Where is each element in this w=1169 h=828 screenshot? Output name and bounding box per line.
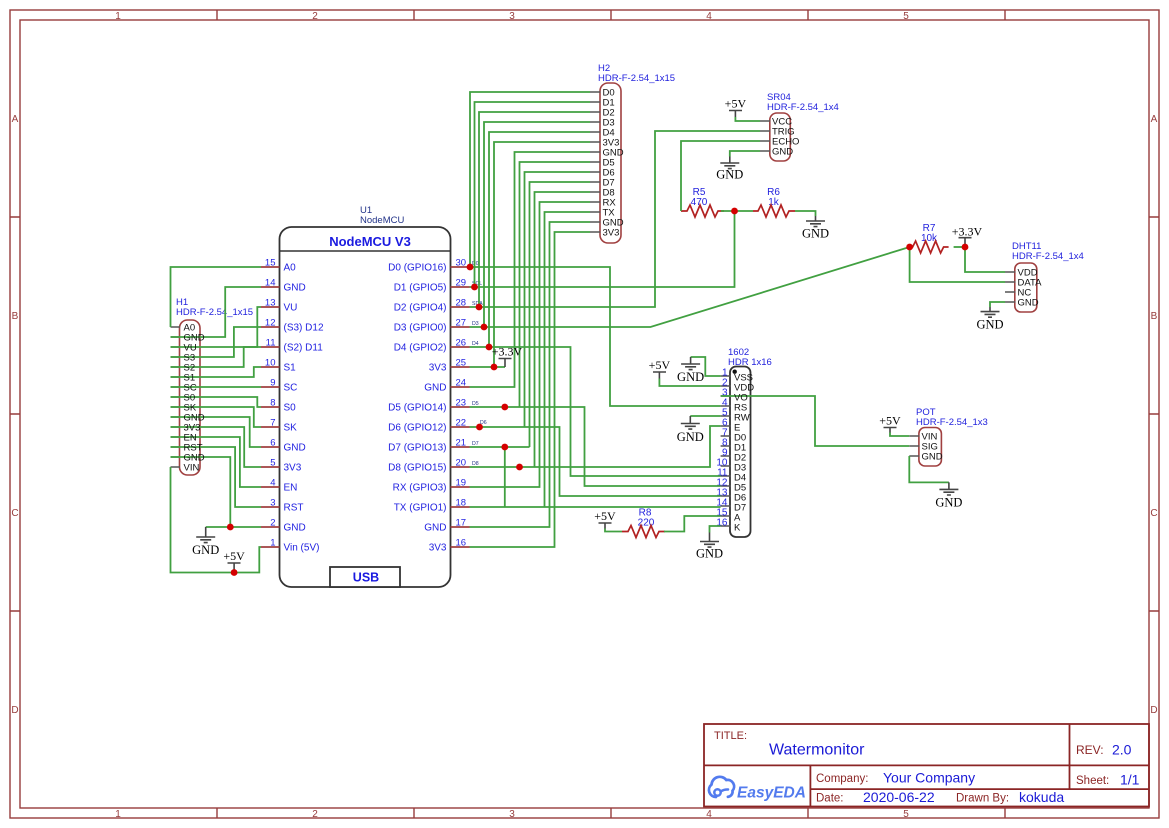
junction at U1 pin27 D3 — [481, 324, 488, 331]
wire net 3V3 from H2 pin6 — [494, 142, 590, 367]
ground at R6 — [802, 216, 829, 241]
wire net D3 from H2 pin4 — [484, 122, 590, 327]
wire R6 to ground — [795, 211, 816, 216]
junction R7 right +3.3V — [962, 244, 969, 251]
svg-text:REV:: REV: — [1076, 743, 1104, 757]
svg-text:GND: GND — [677, 370, 704, 384]
svg-text:kokuda: kokuda — [1019, 789, 1064, 805]
wire net D7 from H2 pin10 — [530, 182, 591, 447]
connector SR04 — [760, 92, 839, 161]
wire +5V flag to R8 — [605, 529, 622, 532]
svg-text:4: 4 — [706, 809, 712, 820]
svg-text:29: 29 — [456, 278, 467, 289]
svg-text:GND: GND — [1018, 298, 1039, 309]
resistor R8 — [622, 508, 665, 538]
wire SR04 GND pin to ground — [730, 151, 760, 157]
svg-text:SC: SC — [284, 383, 298, 394]
svg-text:Company:: Company: — [816, 773, 868, 785]
wire U1 pin29 D1 to R5 R6 junction — [470, 211, 735, 287]
+5V power flag at LCD VDD — [649, 358, 671, 379]
resistor R6 — [753, 187, 795, 217]
svg-text:GND: GND — [284, 283, 306, 294]
svg-text:1/1: 1/1 — [1120, 772, 1140, 788]
svg-text:Vin (5V): Vin (5V) — [284, 543, 320, 554]
wire U1 pin28 D2 to SR04 TRIG — [470, 131, 761, 307]
svg-text:21: 21 — [456, 438, 467, 449]
wire LCD VO to POT SIG — [721, 396, 910, 446]
svg-text:3: 3 — [509, 809, 515, 820]
svg-text:TITLE:: TITLE: — [714, 730, 747, 742]
svg-text:1: 1 — [115, 809, 121, 820]
H1 pin lines — [171, 327, 181, 467]
wire net GND from H2 pin7 to U1 pin24 — [470, 152, 591, 387]
U1 left pin stubs — [261, 267, 280, 547]
svg-text:8: 8 — [270, 398, 275, 409]
svg-text:NodeMCU V3: NodeMCU V3 — [329, 234, 411, 249]
junction on net D5 — [501, 404, 508, 411]
svg-text:D: D — [1150, 705, 1157, 716]
wire POT GND pin to ground — [909, 456, 949, 482]
node net labels D0 SCL SDA D3 D4 D5 D6 D7 D8 — [472, 261, 487, 467]
svg-text:S0: S0 — [284, 403, 297, 414]
svg-text:3V3: 3V3 — [603, 228, 620, 239]
wire H1 SK to U1 pin7 — [171, 407, 262, 427]
svg-text:GND: GND — [424, 523, 446, 534]
svg-text:+5V: +5V — [223, 549, 245, 563]
svg-text:RX (GPIO3): RX (GPIO3) — [393, 483, 447, 494]
svg-text:2: 2 — [312, 809, 318, 820]
svg-text:10: 10 — [265, 358, 276, 369]
svg-text:16: 16 — [456, 538, 467, 549]
LCD1602 pin names — [734, 373, 754, 534]
svg-text:3V3: 3V3 — [429, 363, 447, 374]
svg-text:26: 26 — [456, 338, 467, 349]
wire LCD RW to ground — [690, 415, 720, 417]
svg-text:(S3) D12: (S3) D12 — [284, 323, 324, 334]
svg-text:A: A — [1151, 114, 1158, 125]
svg-text:4: 4 — [706, 11, 712, 22]
wire U1 pin25 3V3 to +3.3V flag — [470, 366, 506, 368]
svg-text:RST: RST — [284, 503, 304, 514]
svg-text:HDR-F-2.54_1x4: HDR-F-2.54_1x4 — [1012, 251, 1084, 262]
wire net D5 from H2 pin8 — [520, 162, 591, 407]
svg-text:6: 6 — [270, 438, 275, 449]
svg-text:GND: GND — [284, 443, 306, 454]
svg-text:+5V: +5V — [879, 414, 901, 428]
ground at LCD VSS — [677, 357, 704, 384]
wire U1 pin27 D3 diagonal to R7 — [470, 247, 910, 327]
svg-text:HDR-F-2.54_1x4: HDR-F-2.54_1x4 — [767, 102, 839, 113]
svg-text:2: 2 — [312, 11, 318, 22]
svg-text:5: 5 — [903, 11, 909, 22]
svg-text:27: 27 — [456, 318, 467, 329]
svg-text:B: B — [1151, 311, 1158, 322]
H1 pin names — [184, 323, 205, 474]
title block — [704, 724, 1149, 807]
junction R7 left DATA — [906, 244, 913, 251]
svg-text:GND: GND — [677, 430, 704, 444]
svg-text:D2 (GPIO4): D2 (GPIO4) — [394, 303, 447, 314]
svg-text:USB: USB — [353, 571, 379, 585]
wire LCD K to ground — [710, 526, 721, 533]
svg-text:5: 5 — [270, 458, 275, 469]
ground at SR04 — [716, 157, 743, 182]
svg-text:GND: GND — [696, 547, 723, 561]
svg-text:3: 3 — [509, 11, 515, 22]
wire U1 pin22 D6 to LCD D6 — [470, 427, 721, 496]
junction at U1 pin28 D2 — [476, 304, 483, 311]
wire branch D7 down to TX row — [504, 447, 506, 507]
svg-text:VU: VU — [284, 303, 298, 314]
wire U1 pin20 D8 to LCD E — [470, 426, 721, 467]
wire net D2 from H2 pin3 — [479, 112, 590, 307]
wire LCD VSS to ground — [691, 357, 721, 376]
svg-text:D6 (GPIO12): D6 (GPIO12) — [388, 423, 446, 434]
svg-text:B: B — [12, 311, 19, 322]
svg-text:2: 2 — [270, 518, 275, 529]
resistor R7 — [910, 223, 949, 253]
svg-text:(S2) D11: (S2) D11 — [284, 343, 324, 354]
svg-text:S1: S1 — [284, 363, 297, 374]
junction on net D7 — [501, 444, 508, 451]
svg-text:D5 (GPIO14): D5 (GPIO14) — [388, 403, 446, 414]
svg-text:3V3: 3V3 — [429, 543, 447, 554]
H2 pin lines — [590, 92, 601, 232]
junction at U1 pin25 3V3 — [491, 364, 498, 371]
svg-text:A0: A0 — [284, 263, 297, 274]
wire GND junction to ground symbol — [206, 526, 231, 528]
wire net D0 from H2 pin1 — [470, 92, 590, 267]
svg-text:11: 11 — [266, 338, 276, 349]
svg-text:+3.3V: +3.3V — [952, 225, 983, 239]
svg-text:VIN: VIN — [184, 463, 200, 474]
wire net D6 from H2 pin9 — [525, 172, 591, 427]
wire +5V flag to POT VIN — [890, 433, 909, 437]
connector H2 — [598, 63, 675, 243]
svg-text:+3.3V: +3.3V — [492, 345, 523, 359]
junction at U1 pin30 D0 — [467, 264, 474, 271]
+3.3V power flag at R7 — [952, 225, 983, 248]
+3.3V power flag at U1 pin25 — [492, 345, 523, 368]
wire H1 RST to U1 pin3 — [171, 447, 262, 507]
ground at H1 — [192, 527, 219, 557]
wire LCD A to R8 — [664, 516, 721, 532]
svg-text:D: D — [11, 705, 18, 716]
svg-text:1: 1 — [115, 11, 121, 22]
svg-text:7: 7 — [270, 418, 275, 429]
wire net TX from H2 pin13 — [545, 212, 591, 507]
U1 right pin numbers — [456, 258, 467, 549]
svg-text:2.0: 2.0 — [1112, 742, 1132, 758]
svg-text:D4 (GPIO2): D4 (GPIO2) — [394, 343, 447, 354]
svg-text:Watermonitor: Watermonitor — [769, 742, 865, 759]
svg-text:3: 3 — [270, 498, 275, 509]
wire net GND from H2 pin14 to U1 pin17 — [470, 222, 591, 527]
svg-text:HDR-F-2.54_1x15: HDR-F-2.54_1x15 — [176, 307, 253, 318]
svg-text:18: 18 — [456, 498, 467, 509]
+5V power flag at H1 VIN — [223, 549, 245, 573]
svg-text:GND: GND — [802, 227, 829, 241]
U1 left pin numbers — [265, 258, 276, 549]
junction at U1 pin26 D4 — [486, 344, 493, 351]
EasyEDA logo — [709, 777, 806, 802]
svg-text:+5V: +5V — [725, 97, 747, 111]
svg-text:5: 5 — [903, 809, 909, 820]
svg-text:+5V: +5V — [594, 509, 616, 523]
wire H1 EN to U1 pin4 — [171, 437, 262, 487]
connector DHT11 — [1005, 241, 1084, 312]
wire net 3V3 from H2 pin15 to U1 pin16 — [470, 232, 591, 547]
svg-text:Date:: Date: — [816, 793, 844, 805]
svg-text:D3 (GPIO0): D3 (GPIO0) — [394, 323, 447, 334]
wire +3.3V junction to DHT11 VDD — [965, 247, 1005, 272]
svg-text:23: 23 — [456, 398, 467, 409]
wire H1 S0 to U1 pin8 — [171, 397, 262, 407]
wire +5V flag to LCD VDD — [659, 379, 720, 387]
wire R5 to R6 through junction — [721, 210, 753, 212]
wire net RX from H2 pin12 to U1 pin19 — [470, 202, 591, 487]
svg-text:D8 (GPIO15): D8 (GPIO15) — [388, 463, 446, 474]
ground at LCD RW — [677, 416, 704, 444]
svg-text:HDR-F-2.54_1x3: HDR-F-2.54_1x3 — [916, 417, 988, 428]
svg-text:4: 4 — [270, 478, 275, 489]
wire H1 GND to U1 pin2 — [171, 457, 262, 527]
wire H1 3V3 to U1 pin5 — [171, 427, 262, 467]
svg-text:3V3: 3V3 — [284, 463, 302, 474]
wire H1 S2 to U1 pin11 — [171, 347, 262, 367]
wire U1 pin30 D0 to LCD RS — [470, 267, 721, 406]
wire H1 VU to U1 pin13 — [171, 307, 262, 347]
wire net D8 from H2 pin11 — [535, 192, 591, 467]
wire R7 to +3.3V junction — [954, 246, 965, 248]
junction R5 R6 divider — [731, 208, 738, 215]
ground at LCD K — [696, 533, 723, 561]
wire H1 S1 to U1 pin10 — [171, 367, 262, 377]
svg-text:GND: GND — [284, 523, 306, 534]
svg-text:28: 28 — [456, 298, 467, 309]
junction H1 GND net — [227, 524, 234, 531]
svg-text:24: 24 — [456, 378, 467, 389]
svg-text:15: 15 — [265, 258, 276, 269]
wire DHT11 GND pin to ground — [990, 302, 1005, 307]
svg-text:D0 (GPIO16): D0 (GPIO16) — [388, 263, 446, 274]
wire H1 GND to U1 pin14 — [171, 287, 262, 337]
svg-text:GND: GND — [716, 168, 743, 182]
svg-text:GND: GND — [192, 543, 219, 557]
svg-text:Your Company: Your Company — [883, 770, 975, 786]
svg-text:GND: GND — [935, 496, 962, 510]
svg-text:SK: SK — [284, 423, 298, 434]
svg-text:D1 (GPIO5): D1 (GPIO5) — [394, 283, 447, 294]
svg-text:EN: EN — [284, 483, 298, 494]
wire H1 A0 to U1 pin15 — [171, 267, 262, 327]
junction at U1 pin29 D1 — [471, 284, 478, 291]
H2 pin names — [603, 88, 624, 239]
U1 right pin stubs — [451, 267, 470, 547]
svg-text:D7 (GPIO13): D7 (GPIO13) — [388, 443, 446, 454]
+5V power flag at R8 — [594, 509, 616, 529]
+5V power flag at SR04 — [725, 97, 747, 118]
wire H1 S3 to U1 pin12 — [171, 327, 262, 357]
wire H1 GND to U1 pin6 — [171, 417, 262, 447]
svg-text:13: 13 — [265, 298, 276, 309]
svg-text:C: C — [1150, 508, 1157, 519]
svg-text:NodeMCU: NodeMCU — [360, 215, 404, 226]
svg-text:9: 9 — [270, 378, 275, 389]
wire R7 junction to DHT11 DATA — [910, 247, 1005, 282]
junction on net D6 — [476, 424, 483, 431]
svg-text:GND: GND — [424, 383, 446, 394]
svg-text:C: C — [11, 508, 18, 519]
svg-text:17: 17 — [456, 518, 467, 529]
resistor R5 — [681, 187, 724, 217]
wire U1 pin23 D5 to LCD D5 — [470, 407, 721, 486]
wire H1 SC to U1 pin9 — [171, 386, 262, 388]
svg-text:12: 12 — [265, 318, 276, 329]
svg-text:EasyEDA: EasyEDA — [737, 785, 806, 802]
svg-text:Sheet:: Sheet: — [1076, 775, 1109, 787]
U1 left pin names — [284, 263, 324, 554]
svg-text:GND: GND — [772, 147, 793, 158]
svg-text:22: 22 — [456, 418, 467, 429]
svg-text:+5V: +5V — [649, 358, 671, 372]
wire +5V flag to SR04 VCC — [735, 117, 760, 121]
wire net D4 from H2 pin5 — [489, 132, 590, 347]
svg-text:30: 30 — [456, 258, 467, 269]
svg-text:Drawn By:: Drawn By: — [956, 793, 1009, 805]
junction on net D8 — [516, 464, 523, 471]
connector H1 — [176, 297, 253, 475]
svg-text:A: A — [12, 114, 19, 125]
wire SR04 ECHO to R5 — [681, 141, 760, 211]
svg-text:TX (GPIO1): TX (GPIO1) — [394, 503, 447, 514]
connector LCD1602 — [716, 347, 771, 537]
wire U1 pin26 D4 to LCD D4 — [470, 347, 721, 476]
connector POT — [909, 407, 988, 466]
wire U1 pin21 D7 stub — [470, 446, 530, 448]
svg-text:2020-06-22: 2020-06-22 — [863, 789, 935, 805]
wire H1 VIN to +5V and U1 pin1 — [171, 467, 262, 573]
wire U1 pin18 TX to LCD D7 — [470, 506, 721, 508]
svg-text:GND: GND — [922, 452, 943, 463]
svg-text:1: 1 — [270, 538, 275, 549]
svg-text:K: K — [734, 523, 741, 534]
svg-text:GND: GND — [976, 318, 1003, 332]
junction H1 VIN +5V — [231, 569, 238, 576]
svg-text:19: 19 — [456, 478, 467, 489]
U1 right pin names — [388, 263, 447, 554]
svg-text:14: 14 — [265, 278, 276, 289]
wire net D1 from H2 pin2 — [475, 102, 591, 287]
ground at DHT11 — [976, 307, 1003, 332]
ground at POT — [935, 482, 962, 509]
svg-text:20: 20 — [456, 458, 467, 469]
IC U1 NodeMCU module — [280, 205, 451, 587]
svg-text:25: 25 — [456, 358, 467, 369]
+5V power flag at POT — [879, 414, 901, 433]
